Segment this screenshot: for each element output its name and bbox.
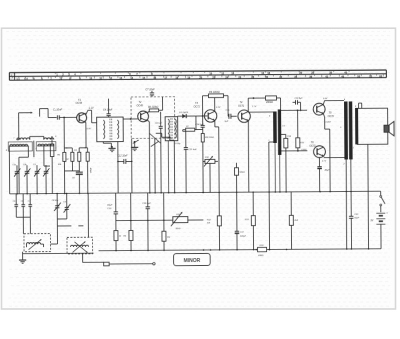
oscillator coil L5 — [24, 233, 58, 251]
bus junctions — [115, 248, 369, 251]
resistor R15 — [296, 110, 305, 151]
wire T6 collector — [322, 157, 345, 163]
svg-text:D1 OA79: D1 OA79 — [179, 111, 189, 114]
wire Tr2 primary down — [167, 141, 169, 193]
capacitor C19 — [317, 157, 330, 191]
trimmer C5 — [13, 194, 18, 218]
svg-text:50kΩ: 50kΩ — [240, 172, 246, 174]
svg-text:10kΩ: 10kΩ — [175, 228, 180, 230]
wire resistor tops — [64, 147, 87, 152]
capacitor C18 — [292, 98, 303, 111]
wire T4 to transformer — [248, 111, 273, 113]
svg-text:40µF: 40µF — [324, 169, 330, 172]
wire base divider — [63, 117, 65, 152]
svg-text:R6 220kΩ: R6 220kΩ — [148, 107, 159, 109]
coil former L3 — [8, 142, 32, 151]
wire T2 collector — [147, 111, 149, 113]
resistor R3 — [74, 150, 81, 161]
svg-text:OC44: OC44 — [76, 102, 83, 105]
wire column 161 — [160, 143, 162, 192]
potentiometer R10 — [203, 156, 218, 193]
svg-text:0.9V: 0.9V — [87, 128, 92, 130]
resistor R11 — [265, 96, 281, 111]
capacitor C15 — [225, 110, 237, 123]
trimmer C7b — [28, 194, 33, 234]
diode D1 — [178, 111, 196, 118]
variable capacitor C1b — [23, 164, 31, 193]
svg-text:3V: 3V — [370, 220, 373, 222]
capacitor C13 — [107, 193, 118, 231]
wire Tr2 down — [173, 141, 175, 193]
capacitor C1 — [53, 108, 77, 119]
wire trimmer row — [16, 216, 30, 218]
svg-text:200kΩ: 200kΩ — [265, 102, 273, 104]
loudspeaker LS1 — [384, 121, 394, 135]
wire Tr3 sec mid — [281, 134, 286, 138]
wire column 183 — [182, 130, 184, 132]
transistor T2 — [137, 101, 149, 122]
tuning dial scale — [9, 70, 386, 81]
coil Tr1 secondary — [117, 120, 119, 139]
capacitor C11 — [184, 131, 198, 192]
core Tr1 — [110, 119, 112, 141]
wire T4 emitter — [247, 121, 249, 192]
resistor R18 — [289, 192, 299, 250]
variable capacitor C1a — [12, 164, 20, 193]
core Tr2 — [171, 118, 172, 139]
wire Tr3 sec bottom — [281, 150, 307, 152]
wire T1 collector — [86, 110, 97, 123]
trimmer C9 — [63, 193, 70, 219]
supply bus — [99, 249, 381, 251]
svg-text:1.7V: 1.7V — [252, 106, 257, 108]
resistor R7 — [183, 126, 203, 131]
transistor T4 — [238, 101, 251, 122]
label MINOR — [174, 253, 211, 265]
svg-text:40kΩ: 40kΩ — [89, 168, 92, 174]
capacitor C2 — [50, 136, 54, 194]
antenna input arrow — [19, 112, 33, 140]
resistor R19 — [255, 245, 270, 257]
svg-text:4: 4 — [344, 98, 345, 101]
svg-text:R9 100kΩ: R9 100kΩ — [209, 91, 220, 94]
capacitor C17 — [235, 231, 247, 250]
wire T2 emitter — [148, 120, 150, 193]
switch S1 — [380, 195, 385, 212]
svg-text:C9 50p: C9 50p — [174, 143, 182, 145]
wire Tr1 bottom to ground — [103, 142, 115, 152]
resistor R1 — [57, 152, 66, 165]
transformer Tr4 pins — [340, 98, 357, 166]
wire T3 emitter — [215, 120, 219, 215]
potentiometer R16 volume — [171, 212, 188, 230]
wire Tr4 columns — [346, 159, 351, 249]
dial scale numbers row 2 — [16, 75, 382, 81]
resistor R6 — [148, 97, 163, 112]
variable capacitor C3a — [33, 164, 41, 193]
svg-text:C18 8µF: C18 8µF — [294, 98, 303, 100]
wire detector to T3 base — [196, 115, 208, 117]
earth rail — [10, 191, 356, 193]
svg-text:C7 10nF: C7 10nF — [145, 88, 155, 91]
dial scale numbers row 1 — [56, 71, 347, 76]
svg-text:200Ω: 200Ω — [257, 255, 264, 257]
transformer Tr4 winding B — [349, 101, 353, 159]
rail junctions right — [149, 191, 352, 194]
svg-text:-1.1V: -1.1V — [88, 108, 94, 110]
wire osc section — [57, 193, 88, 237]
wire detector down — [195, 116, 197, 130]
transformer Tr4 winding A — [344, 101, 348, 159]
wire diag — [149, 133, 160, 143]
capacitor C4 — [103, 99, 113, 118]
svg-text:0.7V: 0.7V — [322, 161, 327, 163]
transformer Tr4 secondary — [355, 108, 358, 145]
ground — [19, 252, 26, 264]
speaker enclosure — [357, 108, 388, 144]
wire aerial taps — [19, 141, 50, 194]
svg-text:0.85V: 0.85V — [301, 149, 307, 151]
trimmer C6b — [21, 194, 25, 218]
resistor R17 — [234, 163, 245, 232]
transistor T6 — [301, 141, 325, 157]
IF transformer Tr2 — [165, 117, 178, 141]
svg-text:50µF: 50µF — [354, 217, 360, 219]
IF transformer Tr1 — [97, 117, 124, 142]
capacitor C20 — [349, 214, 360, 219]
svg-text:C14 5µF: C14 5µF — [195, 123, 204, 126]
coil Tr2 primary — [168, 119, 169, 138]
svg-text:100µF: 100µF — [240, 235, 247, 237]
rail junctions left — [16, 192, 88, 194]
transistor T3 — [194, 102, 217, 122]
wire resistor bottoms — [64, 161, 87, 193]
coil L4 — [34, 144, 56, 150]
coil L2 — [44, 136, 58, 139]
resistor R5b — [123, 193, 133, 251]
transformer Tr3 core — [278, 109, 282, 155]
dial tick marks — [12, 70, 383, 79]
resistor R9 — [202, 91, 228, 117]
svg-text:C11 5nF: C11 5nF — [188, 149, 197, 151]
wire stair — [156, 133, 175, 140]
coil Tr1 primary — [103, 120, 105, 139]
coil L3 — [6, 144, 29, 152]
transformer Tr3 primary — [273, 111, 277, 143]
resistor R8 — [201, 133, 214, 192]
svg-text:0.1V: 0.1V — [216, 107, 221, 109]
wire T3 collector — [214, 98, 216, 112]
svg-text:4: 4 — [269, 115, 270, 118]
wire column 131.8 — [131, 138, 133, 161]
wire osc bottom — [23, 253, 104, 263]
wire L1-L2 link — [30, 136, 44, 139]
core arrow Tr2 — [151, 141, 159, 146]
shield box T2 — [131, 97, 175, 139]
wire Tr3 primary bottom — [269, 142, 274, 250]
wire Tr3 winding leads — [274, 143, 281, 193]
transistor T5 — [313, 103, 334, 118]
resistor R12 — [207, 216, 222, 250]
svg-text:C16 5µF: C16 5µF — [142, 203, 151, 205]
svg-text:1: 1 — [353, 147, 354, 149]
capacitor C6 — [72, 172, 83, 193]
capacitor C16 — [142, 193, 151, 251]
wire Tr1 to T2 base — [123, 118, 138, 120]
resistor R2 — [66, 152, 74, 161]
svg-text:C₁ 10nF: C₁ 10nF — [53, 108, 62, 111]
resistor R13b — [245, 192, 256, 250]
coil L1 — [13, 138, 30, 140]
transistor T1 — [75, 99, 86, 123]
svg-text:OC72: OC72 — [309, 145, 316, 148]
svg-text:OC71: OC71 — [194, 105, 201, 108]
svg-text:0.25V: 0.25V — [325, 122, 331, 124]
transformer Tr3 pins — [268, 114, 286, 142]
svg-text:OC45: OC45 — [137, 104, 144, 107]
battery B1 3V — [370, 211, 388, 248]
wire speaker return — [367, 144, 370, 248]
ground 2 — [131, 141, 138, 151]
capacitor C12 — [117, 155, 132, 164]
capacitor C7 — [145, 88, 155, 97]
node base T1 — [63, 117, 65, 119]
svg-text:OC71: OC71 — [238, 104, 245, 107]
wire T4 collector — [248, 97, 265, 111]
wire Tr1 secondary down — [117, 142, 119, 193]
variable capacitor C3b — [43, 165, 50, 194]
svg-text:MINOR: MINOR — [184, 258, 201, 264]
svg-text:C12 10nF: C12 10nF — [117, 156, 128, 158]
capacitor C8 — [155, 112, 163, 144]
wire T5 collector — [323, 98, 344, 104]
core arrow Tr1 — [133, 140, 139, 144]
pickup bracket — [40, 108, 57, 117]
wire rail to switch — [356, 190, 381, 192]
resistor R4 — [86, 152, 92, 173]
capacitor C14 — [195, 116, 205, 134]
resistor R14 — [284, 135, 292, 192]
oscillator coil L6 — [67, 237, 93, 254]
svg-text:C4 10nF: C4 10nF — [103, 108, 113, 111]
resistor R5c — [162, 193, 172, 251]
speaker terminal tab — [359, 103, 362, 108]
resistor R5a — [114, 231, 122, 251]
wire column 155 — [154, 138, 156, 192]
wire Tr3 sec top — [281, 109, 307, 111]
svg-text:OC72: OC72 — [328, 115, 335, 118]
switch contact box — [104, 262, 156, 266]
svg-text:80µF: 80µF — [107, 205, 113, 207]
coil former L4 — [36, 142, 56, 151]
trimmer C8 — [52, 193, 61, 244]
wire T5 emitter — [323, 114, 331, 192]
wire aerial left — [8, 146, 10, 194]
mid rail — [116, 219, 204, 221]
wire T1 emitter — [86, 122, 92, 147]
svg-text:C8 30p: C8 30p — [52, 200, 59, 202]
svg-text:R8 10kΩ: R8 10kΩ — [205, 137, 214, 139]
svg-text:0.5V: 0.5V — [323, 98, 328, 100]
svg-text:C8 1nF: C8 1nF — [155, 123, 163, 125]
coil Tr2 secondary — [175, 119, 176, 138]
